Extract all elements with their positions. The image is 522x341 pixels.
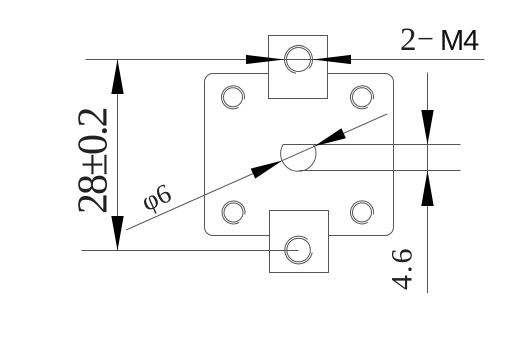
svg-text:28±0.2: 28±0.2: [71, 108, 117, 214]
phi6 arrow upper-right (points down-left at hole): [314, 128, 346, 146]
svg-text:2: 2: [400, 22, 417, 58]
28 dim: top arrow (up): [111, 60, 123, 95]
svg-text:M4: M4: [440, 25, 479, 57]
arrow pointing left at top hole: [313, 55, 352, 64]
phi6 arrow lower-left (points up-right at hole): [251, 161, 283, 179]
4.6 dim: lower arrow (up): [421, 171, 433, 207]
bottom M4 tapped hole: inner circle: [287, 238, 311, 262]
corner hole bottom-right: [351, 201, 374, 224]
28 dim: bottom arrow (down): [111, 216, 123, 251]
top mounting tab: [269, 36, 328, 99]
arrow pointing right at top hole: [246, 55, 285, 64]
4.6 dim: upper arrow (down): [421, 110, 433, 145]
svg-text:4.6: 4.6: [386, 247, 419, 291]
4.6 dim: vertical line: [427, 73, 429, 294]
chord extension line to 4.6 dim: [283, 144, 460, 146]
corner hole top-right: [351, 86, 374, 109]
plate body (rounded square): [205, 74, 394, 236]
central D-shaped hole (flat top chord + arc): [281, 145, 316, 172]
corner hole top-left: [222, 86, 245, 109]
28 dim: vertical dimension line: [117, 60, 119, 251]
28 dim: bottom extension line to bottom hole center: [82, 250, 299, 252]
leader/extension line through top M4 hole: [86, 59, 485, 61]
svg-text:−: −: [417, 23, 434, 56]
bottom M4 tapped hole: outer thread arc: [285, 236, 312, 264]
bottom mounting tab: [270, 211, 329, 273]
phi6 diagonal leader line: [126, 114, 387, 230]
top M4 tapped hole: inner circle: [287, 48, 311, 72]
corner hole bottom-left: [222, 201, 245, 224]
top M4 tapped hole: outer thread arc: [284, 46, 312, 74]
bottom tangent extension line to 4.6 dim: [300, 170, 461, 172]
